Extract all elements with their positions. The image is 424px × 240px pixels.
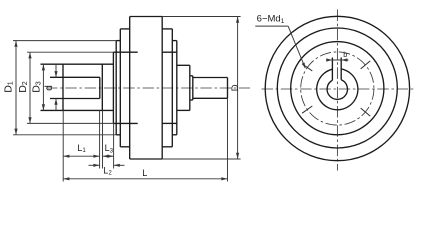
svg-text:b: b xyxy=(343,50,347,59)
svg-text:6−Md1: 6−Md1 xyxy=(257,14,285,25)
svg-text:d: d xyxy=(44,85,55,91)
svg-text:L: L xyxy=(142,168,147,178)
svg-text:D: D xyxy=(230,84,241,91)
